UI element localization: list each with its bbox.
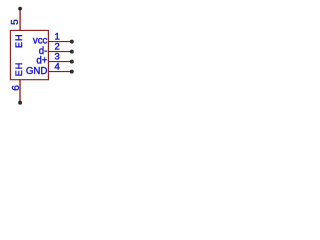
svg-text:GND: GND: [26, 66, 48, 77]
connector body U1: [10, 30, 48, 79]
pin 3 end dot: [70, 60, 74, 64]
pin 6 end dot: [18, 101, 22, 105]
pin 2 wire: [49, 51, 72, 53]
pin 1 end dot: [70, 40, 74, 44]
pin 1 wire: [49, 41, 72, 43]
svg-text:EH: EH: [14, 33, 24, 48]
pin 6 wire (bottom): [19, 80, 21, 103]
pin 5 end dot: [18, 7, 22, 11]
svg-text:6: 6: [11, 85, 22, 91]
svg-text:4: 4: [54, 62, 59, 73]
svg-text:EH: EH: [14, 62, 24, 77]
svg-text:5: 5: [10, 19, 21, 25]
svg-text:d+: d+: [36, 56, 47, 67]
pin 4 wire: [49, 71, 72, 73]
pin 3 wire: [49, 61, 72, 63]
pin 5 wire (top): [19, 9, 21, 31]
pin 2 end dot: [70, 50, 74, 54]
pin 4 end dot: [70, 70, 74, 74]
